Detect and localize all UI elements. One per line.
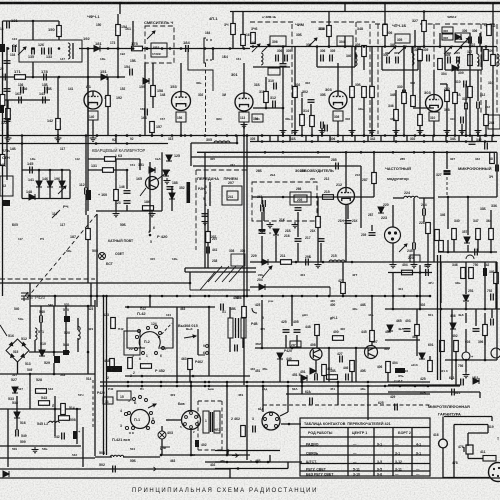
junction xyxy=(180,134,183,137)
resistor 411 xyxy=(483,456,496,462)
wire xyxy=(388,384,460,386)
rectifier bridge 515 xyxy=(6,339,29,362)
inductor 504 xyxy=(110,455,124,457)
contact circle xyxy=(206,345,209,348)
bus E xyxy=(28,295,430,297)
junction xyxy=(246,134,249,137)
wire xyxy=(236,136,238,144)
resistor 346 xyxy=(251,33,256,44)
capacitor 145 xyxy=(30,167,33,174)
capacitor 405 xyxy=(294,330,301,333)
capacitor 216 xyxy=(295,239,302,242)
svg-text:44Б: 44Б xyxy=(360,387,366,391)
junction xyxy=(395,134,398,137)
rail x177 xyxy=(176,307,178,382)
resistor xyxy=(487,25,492,36)
wire xyxy=(446,102,448,136)
capacitor xyxy=(387,57,390,64)
junction xyxy=(392,295,395,298)
connector pair xyxy=(231,254,245,266)
stage1 assembly wire xyxy=(253,66,290,68)
socket pin xyxy=(265,425,268,428)
ground xyxy=(241,122,248,128)
wire xyxy=(160,446,170,448)
node input wire xyxy=(0,0,1,1)
capacitor xyxy=(483,268,487,276)
capacitor 502 xyxy=(113,466,116,473)
svg-text:30Б: 30Б xyxy=(285,117,291,121)
resistor xyxy=(0,95,5,106)
wire row 455 xyxy=(160,454,250,456)
wire xyxy=(243,122,245,136)
capacitor 302 xyxy=(308,100,315,103)
diode 159 xyxy=(143,78,149,84)
resistor 404 xyxy=(402,270,413,275)
calibrator top wire xyxy=(0,143,168,145)
bus stub xyxy=(380,136,382,142)
trimmer xyxy=(388,46,396,54)
wire row 469 xyxy=(0,468,111,470)
junction xyxy=(344,45,347,48)
wire xyxy=(465,313,467,323)
junction xyxy=(439,45,442,48)
junction xyxy=(454,134,457,137)
resistor 1К3 xyxy=(105,157,116,162)
svg-text:13Б: 13Б xyxy=(42,83,49,87)
capacitor xyxy=(221,304,224,311)
bus stub xyxy=(491,136,493,142)
junction xyxy=(161,134,164,137)
wire xyxy=(475,309,477,326)
junction xyxy=(151,134,154,137)
svg-text:42Ч: 42Ч xyxy=(428,281,433,285)
wire xyxy=(371,296,373,330)
junction xyxy=(161,295,164,298)
capacitor 141 xyxy=(43,97,46,104)
junction xyxy=(363,134,366,137)
wire xyxy=(190,289,250,291)
capacitor 306 xyxy=(419,55,422,62)
wire hop xyxy=(466,255,474,259)
relay box 207 xyxy=(222,186,242,205)
junction xyxy=(226,295,229,298)
diode 151 xyxy=(101,74,107,80)
svg-text:124: 124 xyxy=(12,37,17,41)
junction xyxy=(439,45,442,48)
junction xyxy=(117,47,120,50)
junction xyxy=(416,295,419,298)
resistor 215 xyxy=(323,195,334,200)
electrolytic 356 xyxy=(462,352,470,360)
wire pair lower xyxy=(185,271,256,273)
svg-text:527: 527 xyxy=(18,387,23,391)
ground xyxy=(475,128,482,134)
bus stub xyxy=(317,136,319,142)
junction xyxy=(427,385,430,388)
ground xyxy=(164,178,171,184)
junction xyxy=(467,196,470,199)
table line xyxy=(300,470,430,472)
junction xyxy=(87,76,90,79)
junction xyxy=(465,134,468,137)
junction xyxy=(433,134,436,137)
wire row 462b xyxy=(215,461,270,463)
cathode box 310 xyxy=(429,112,439,121)
wire xyxy=(465,108,467,136)
capacitor 306 xyxy=(321,55,324,62)
table line xyxy=(300,436,430,438)
junction xyxy=(236,142,239,145)
table КОНТАКТОВ border xyxy=(300,418,430,476)
capacitor xyxy=(295,208,302,211)
junction xyxy=(87,305,90,308)
junction xyxy=(58,76,61,79)
transformer box 266 xyxy=(290,192,311,205)
wire xyxy=(316,47,318,68)
wire xyxy=(371,342,373,346)
socket pin xyxy=(184,423,187,426)
wire xyxy=(166,419,181,421)
junction xyxy=(328,347,331,350)
junction xyxy=(261,261,264,264)
wire xyxy=(337,63,339,91)
capacitor 133 xyxy=(49,48,52,55)
junction xyxy=(403,295,406,298)
crystal box 300 xyxy=(268,68,280,75)
svg-text:404: 404 xyxy=(300,273,305,277)
resistor 448 xyxy=(315,325,320,336)
ground xyxy=(55,136,62,142)
wire xyxy=(347,205,349,219)
svg-text:601: 601 xyxy=(428,313,433,317)
junction xyxy=(282,134,285,137)
wire xyxy=(385,339,420,341)
wire xyxy=(242,46,244,49)
diode xyxy=(455,34,461,40)
wire xyxy=(126,205,128,211)
wire xyxy=(477,240,479,252)
wire xyxy=(193,165,361,167)
junction xyxy=(53,351,56,354)
tube socket Ш1 xyxy=(182,411,201,430)
inductor 192 xyxy=(68,43,70,59)
bus stub xyxy=(115,136,117,144)
junction xyxy=(180,134,183,137)
junction xyxy=(141,385,144,388)
junction xyxy=(413,151,416,154)
wire xyxy=(355,348,357,382)
junction xyxy=(204,381,207,384)
transistor 408 xyxy=(310,348,322,360)
wire xyxy=(337,382,339,405)
component blob xyxy=(2,200,10,206)
contact circle xyxy=(155,326,158,329)
junction xyxy=(414,45,417,48)
capacitor 624 xyxy=(310,398,313,405)
wire xyxy=(485,126,487,136)
svg-text:112: 112 xyxy=(75,157,80,161)
bus F xyxy=(100,381,430,383)
relay Р-452 box xyxy=(124,331,140,355)
wire row 450 xyxy=(215,450,280,452)
junction xyxy=(29,373,32,376)
left section wire xyxy=(0,282,190,284)
wire xyxy=(117,49,119,78)
wire xyxy=(328,348,330,382)
wire xyxy=(212,49,214,61)
edge component xyxy=(0,106,4,113)
junction xyxy=(395,134,398,137)
junction xyxy=(328,295,331,298)
wire xyxy=(252,196,338,198)
block dash side xyxy=(433,24,435,70)
wire xyxy=(87,240,89,283)
coil core xyxy=(72,43,74,59)
svg-text:310: 310 xyxy=(450,117,455,121)
junction xyxy=(447,251,450,254)
junction xyxy=(235,134,238,137)
resistor xyxy=(461,268,466,279)
rail x209 xyxy=(208,307,210,376)
socket pin xyxy=(190,412,193,415)
wire xyxy=(329,287,331,296)
ground xyxy=(149,211,156,217)
wire xyxy=(123,456,160,458)
svg-text:540: 540 xyxy=(48,303,53,307)
junction xyxy=(57,134,60,137)
trimmer xyxy=(398,46,406,54)
junction xyxy=(446,140,449,143)
wire xyxy=(7,120,9,136)
ground xyxy=(369,128,376,134)
wire xyxy=(443,477,489,479)
ground xyxy=(113,211,120,217)
wire xyxy=(467,197,469,235)
resistor 402 xyxy=(454,341,459,352)
junction xyxy=(212,47,215,50)
block dash top xyxy=(375,23,390,25)
junction xyxy=(469,45,472,48)
junction xyxy=(423,10,426,13)
junction xyxy=(328,45,331,48)
handset inner wire xyxy=(467,433,469,446)
switch contact xyxy=(132,427,135,430)
wire xyxy=(282,47,284,64)
wire xyxy=(294,98,296,136)
junction xyxy=(180,47,183,50)
svg-text:РЧ: РЧ xyxy=(40,237,44,241)
crystal КВ-3 box xyxy=(151,43,167,57)
cathode box 156 xyxy=(176,112,186,122)
ground xyxy=(5,136,12,142)
resistor 445 xyxy=(370,331,375,342)
wire row 77 xyxy=(0,76,125,78)
wire xyxy=(433,70,435,94)
ground xyxy=(259,227,266,233)
junction xyxy=(446,134,449,137)
junction xyxy=(342,295,345,298)
capacitor 424 xyxy=(426,269,429,276)
resistor 161 xyxy=(241,35,246,46)
block dash top xyxy=(250,21,293,23)
wire xyxy=(461,124,463,136)
wire xyxy=(117,14,119,49)
junction xyxy=(85,134,88,137)
wire xyxy=(484,336,486,360)
svg-text:П42: П42 xyxy=(118,327,124,331)
capacitor xyxy=(448,57,451,64)
resistor 340 xyxy=(452,229,457,240)
wire xyxy=(413,107,434,109)
rail x205 xyxy=(204,152,206,268)
capacitor 542 xyxy=(62,433,65,440)
wire xyxy=(139,159,141,170)
stage4 assembly wire xyxy=(445,69,482,71)
svg-text:Р42: Р42 xyxy=(108,387,114,391)
wire row 394 xyxy=(286,393,430,395)
wire xyxy=(232,12,234,25)
capacitor 403 xyxy=(404,329,411,332)
wire xyxy=(387,373,389,382)
resistor 240 xyxy=(445,91,450,102)
wire xyxy=(363,57,365,70)
svg-text:46З: 46З xyxy=(238,393,243,397)
junction xyxy=(373,151,376,154)
block dash top xyxy=(311,21,375,23)
junction xyxy=(190,385,193,388)
wire xyxy=(484,313,486,345)
svg-text:425: 425 xyxy=(260,327,265,331)
bus D xyxy=(250,261,497,263)
junction xyxy=(146,47,149,50)
junction xyxy=(243,134,246,137)
left rail 2 xyxy=(6,47,8,180)
junction xyxy=(371,134,374,137)
wire xyxy=(197,329,199,355)
capacitor 154 xyxy=(130,69,133,76)
svg-text:451: 451 xyxy=(330,387,335,391)
junction xyxy=(176,295,179,298)
wire xyxy=(423,12,425,21)
tube Л1 xyxy=(84,91,102,109)
resistor xyxy=(327,375,338,380)
junction xyxy=(95,142,98,145)
svg-text:П1: П1 xyxy=(140,387,144,391)
diode 451 xyxy=(310,368,316,374)
junction xyxy=(423,134,426,137)
junction xyxy=(96,134,99,137)
junction xyxy=(337,381,340,384)
wire xyxy=(58,21,60,26)
block dash top xyxy=(420,23,440,25)
wire xyxy=(115,159,117,190)
wire xyxy=(479,33,481,47)
ground xyxy=(459,128,466,134)
junction xyxy=(264,151,267,154)
svg-text:166: 166 xyxy=(140,107,145,111)
handset wire xyxy=(487,425,489,434)
block dash side xyxy=(480,24,482,115)
svg-text:44Б: 44Б xyxy=(368,313,374,317)
capacitor 342 xyxy=(469,142,476,145)
svg-text:400: 400 xyxy=(340,327,345,331)
junction xyxy=(301,385,304,388)
diode 404 xyxy=(262,259,268,265)
table column line xyxy=(392,428,394,477)
wire xyxy=(29,306,31,339)
junction xyxy=(384,295,387,298)
transformer winding xyxy=(241,318,246,338)
junction xyxy=(160,454,163,457)
resistor 150 xyxy=(57,26,62,37)
junction xyxy=(419,271,422,274)
resistor xyxy=(484,115,489,126)
junction xyxy=(54,295,57,298)
wire xyxy=(351,98,353,136)
junction xyxy=(139,134,142,137)
junction xyxy=(311,140,314,143)
capacitor xyxy=(496,165,499,172)
IF transformer box xyxy=(270,36,286,46)
junction xyxy=(90,295,93,298)
wire xyxy=(433,121,435,136)
wire xyxy=(419,265,421,309)
wire xyxy=(291,296,293,326)
block dash side xyxy=(369,24,371,134)
arrow mark xyxy=(232,454,238,458)
capacitor 305 xyxy=(427,55,430,62)
junction xyxy=(161,134,164,137)
junction xyxy=(392,308,395,311)
microphone 476 xyxy=(466,445,473,454)
wire xyxy=(491,309,493,318)
wiper arrow xyxy=(148,404,156,408)
wire xyxy=(451,309,453,380)
junction xyxy=(295,261,298,264)
ground xyxy=(315,262,322,268)
switch bar symbol xyxy=(21,293,27,301)
capacitor C101 xyxy=(7,22,10,29)
bridge diode xyxy=(20,353,27,360)
module dash xyxy=(198,400,222,402)
box 15 xyxy=(117,391,131,400)
junction xyxy=(189,282,192,285)
table column line xyxy=(347,428,349,477)
socket pin xyxy=(264,418,267,421)
trimmer xyxy=(454,46,462,54)
diode xyxy=(3,471,9,477)
dash row 405 xyxy=(263,404,430,406)
hatch line xyxy=(222,266,236,282)
wire xyxy=(320,243,322,262)
box 356 xyxy=(252,114,263,122)
bus stub xyxy=(432,136,434,142)
wire xyxy=(477,70,479,101)
junction xyxy=(171,134,174,137)
dash link xyxy=(206,39,213,41)
diode 181 xyxy=(94,46,100,52)
contact circle xyxy=(147,327,150,330)
wire xyxy=(207,209,209,232)
junction xyxy=(184,134,187,137)
ground xyxy=(425,262,432,268)
wire xyxy=(465,84,467,104)
wire xyxy=(442,417,444,440)
block dash top xyxy=(445,23,482,25)
svg-text:40З: 40З xyxy=(170,393,175,397)
svg-text:315: 315 xyxy=(150,257,155,261)
svg-text:303: 303 xyxy=(410,81,415,85)
